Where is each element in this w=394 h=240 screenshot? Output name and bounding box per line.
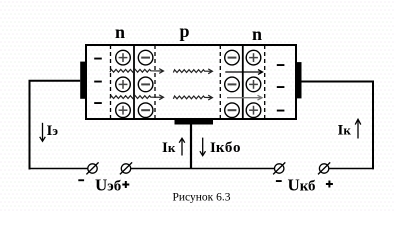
terminal node Ueb plus <box>120 162 132 174</box>
svg-text:Uэб: Uэб <box>95 176 121 195</box>
bottom wire left of Ueb terminal1 <box>29 168 89 170</box>
dashed boundary line 2 (left depletion edge in base) <box>154 45 156 119</box>
collector current arrow left (up) <box>179 138 185 155</box>
svg-text:Iэ: Iэ <box>47 123 59 139</box>
bottom wire right of Ukb terminal2 <box>329 168 374 170</box>
svg-text:Iк: Iк <box>162 140 176 156</box>
wavy diffusion arrow row2 middle <box>173 95 212 100</box>
drift arrow row2 across collector junction (gray) <box>227 95 262 100</box>
donor ion column (circled plus, left n) <box>116 50 131 117</box>
emitter current arrow (down) <box>40 123 46 142</box>
acceptor ion column (circled minus, right side of base) <box>225 50 240 117</box>
base contact bar <box>175 119 214 125</box>
svg-text:Uкб: Uкб <box>288 176 316 195</box>
minus polarity of Ueb <box>78 179 84 181</box>
collector wire: right and down <box>302 82 374 170</box>
minus polarity of Ukb <box>276 180 282 182</box>
terminal node Ukb minus <box>273 162 285 174</box>
collector contact bar <box>296 62 302 98</box>
svg-text:p: p <box>179 21 189 41</box>
terminal node Ueb minus <box>86 162 98 174</box>
wavy diffusion arrow row1 middle <box>173 69 212 74</box>
base leakage current arrow (down) <box>200 138 206 156</box>
svg-text:Iкбо: Iкбо <box>210 140 241 156</box>
drift arrow row1 across collector junction <box>225 70 262 75</box>
wavy electron-injection arrow row1 left <box>110 69 164 74</box>
emitter wire: contact to left and down <box>30 81 81 170</box>
svg-text:Iк: Iк <box>338 123 352 139</box>
minus charge column right (3 signs) <box>277 64 285 111</box>
electron column (circled minus, left of junction in base) <box>138 50 153 117</box>
terminal node Ukb plus <box>318 162 330 174</box>
emitter-base junction line <box>133 44 135 120</box>
svg-text:n: n <box>252 24 262 44</box>
donor ion column (circled plus, right n) <box>246 50 261 117</box>
svg-text:n: n <box>115 22 125 42</box>
dashed boundary line 3 (right depletion edge in base) <box>219 45 221 119</box>
wavy electron-injection arrow row2 left <box>110 95 164 100</box>
bottom wire between sources <box>131 168 275 170</box>
transistor body rectangle <box>86 45 296 119</box>
dashed boundary line 1 (left depletion edge) <box>110 45 112 119</box>
minus charge column left (3 signs) <box>94 58 102 104</box>
collector current arrow right (up) <box>355 119 361 138</box>
emitter contact bar <box>80 62 85 99</box>
base wire down <box>190 125 192 170</box>
svg-text:Рисунок 6.3: Рисунок 6.3 <box>173 192 231 204</box>
collector-base junction line <box>242 44 244 120</box>
plus polarity of Ukb <box>326 181 333 188</box>
plus polarity of Ueb <box>122 181 129 188</box>
dashed boundary line 4 (right depletion edge) <box>264 45 266 119</box>
